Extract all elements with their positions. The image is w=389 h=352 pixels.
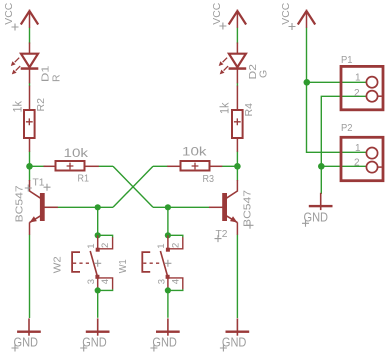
svg-text:VCC: VCC [211, 2, 223, 24]
svg-text:R4: R4 [243, 103, 255, 117]
svg-text:G: G [258, 70, 270, 78]
svg-text:GND: GND [304, 210, 329, 225]
svg-text:R1: R1 [78, 172, 90, 184]
svg-text:GND: GND [222, 334, 247, 349]
svg-text:GND: GND [82, 334, 107, 349]
svg-text:GND: GND [14, 334, 39, 349]
svg-text:P1: P1 [341, 54, 353, 66]
svg-text:10k: 10k [182, 147, 207, 159]
svg-text:VCC: VCC [280, 2, 292, 24]
svg-text:W1: W1 [117, 259, 129, 273]
svg-text:2: 2 [354, 88, 360, 99]
svg-text:T1: T1 [33, 176, 45, 188]
svg-text:1: 1 [355, 143, 361, 154]
svg-text:10k: 10k [64, 148, 89, 160]
svg-text:BC547: BC547 [242, 190, 254, 227]
svg-text:R3: R3 [203, 173, 215, 185]
svg-text:BC547: BC547 [14, 185, 26, 222]
svg-text:VCC: VCC [3, 2, 15, 24]
svg-text:R2: R2 [35, 98, 47, 112]
svg-text:R: R [50, 74, 62, 82]
svg-text:P2: P2 [341, 122, 353, 134]
svg-text:1k: 1k [12, 101, 24, 113]
svg-text:GND: GND [152, 334, 177, 349]
svg-text:2: 2 [354, 158, 360, 169]
svg-text:W2: W2 [51, 256, 63, 273]
svg-text:1: 1 [355, 72, 361, 83]
svg-text:1k: 1k [220, 102, 232, 114]
